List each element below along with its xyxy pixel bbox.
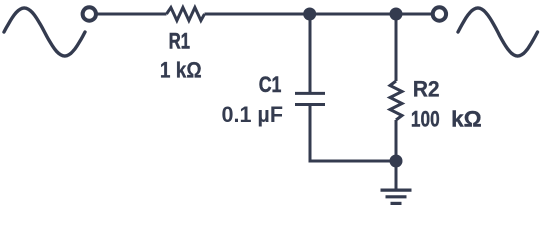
wire capacitor to bottom node bbox=[310, 105, 396, 162]
input signal sine wave bbox=[4, 8, 85, 56]
svg-text:C1: C1 bbox=[259, 72, 282, 97]
output terminal bbox=[433, 7, 446, 20]
resistor R2 bbox=[390, 81, 402, 120]
svg-text:R1: R1 bbox=[169, 28, 190, 53]
capacitor C1 bottom plate bbox=[295, 103, 325, 106]
wire bottom node to ground bbox=[395, 161, 398, 190]
wire junction to R2 bbox=[395, 14, 398, 81]
wire R2 to bottom node bbox=[395, 120, 398, 161]
node B (R2 top junction) bbox=[390, 8, 403, 21]
svg-text:100kΩ: 100kΩ bbox=[411, 106, 482, 131]
input terminal bbox=[83, 7, 96, 20]
svg-text:R2: R2 bbox=[413, 77, 440, 102]
ground bbox=[381, 190, 412, 203]
resistor R1 bbox=[167, 8, 205, 21]
svg-text:1 kΩ: 1 kΩ bbox=[160, 57, 202, 82]
output signal sine wave bbox=[458, 8, 538, 56]
svg-text:0.1 µF: 0.1 µF bbox=[222, 102, 284, 127]
wire junction to capacitor bbox=[309, 14, 312, 92]
wire R1 to output terminal bbox=[205, 13, 432, 16]
wire input terminal to R1 bbox=[98, 13, 167, 16]
node C (bottom junction) bbox=[390, 155, 403, 168]
node A (R1 output junction) bbox=[303, 8, 316, 21]
capacitor C1 top plate bbox=[295, 92, 325, 95]
